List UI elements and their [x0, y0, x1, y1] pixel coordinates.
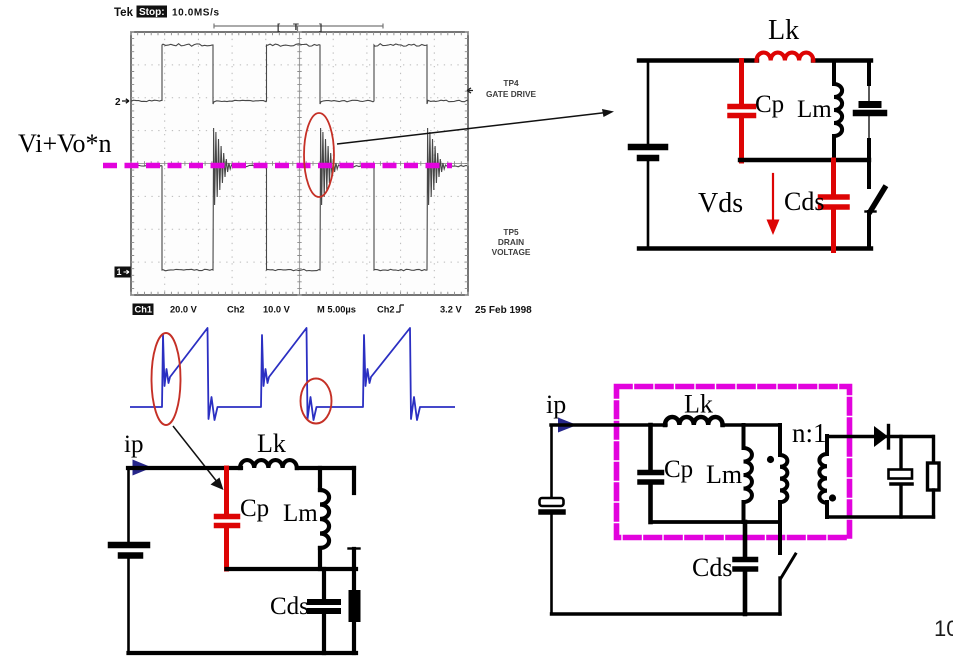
label TP5 DRAIN VOLTAGE: [492, 227, 531, 257]
wire: middle rail: [227, 567, 357, 571]
oscilloscope screenshot panel: [131, 32, 468, 295]
wire: middle rail: [740, 158, 869, 162]
arrow from scope ellipse to equivalent circuit: [337, 113, 605, 144]
capacitor Cds branch: [322, 569, 326, 599]
svg-text:3.2 V: 3.2 V: [440, 305, 463, 315]
capacitor Cp plates: [640, 470, 662, 476]
svg-text:Lm: Lm: [797, 96, 832, 123]
wire: left branch lower: [647, 161, 650, 249]
transformer primary polarity dot: [767, 456, 774, 463]
wire: left branch: [127, 468, 130, 545]
capacitor Cp branch wire lower: [739, 118, 744, 161]
svg-text:Cds: Cds: [692, 553, 732, 582]
svg-text:10: 10: [934, 616, 953, 641]
ip current direction arrowhead (blue): [558, 418, 577, 433]
svg-text:M 5.00µs: M 5.00µs: [317, 305, 356, 315]
svg-text:n:1: n:1: [792, 418, 827, 448]
svg-text:1: 1: [117, 267, 122, 277]
wire: left branch upper: [647, 61, 650, 145]
circuit 3 (full flyback with transformer): [540, 387, 940, 615]
wire: top rail: [551, 423, 780, 426]
capacitor Cds red branch: [831, 160, 836, 194]
transformer primary winding: [778, 425, 782, 553]
capacitor Cp plates: [730, 104, 754, 110]
wire: bottom rail: [129, 651, 357, 655]
magenta dashed Vi+Vo*n level line: [103, 163, 452, 169]
transformer secondary winding: [819, 454, 827, 503]
output capacitor branch: [899, 437, 902, 470]
svg-text:Cds: Cds: [784, 187, 824, 216]
svg-text:Ch2: Ch2: [227, 305, 245, 315]
svg-text:Vi+Vo*n: Vi+Vo*n: [18, 129, 112, 158]
svg-text:ip: ip: [124, 431, 143, 458]
right branch upper wire: [867, 61, 871, 85]
wire: bottom rail: [639, 246, 871, 250]
clamp capacitor plates (right branch): [862, 101, 878, 108]
svg-text:Cds: Cds: [270, 593, 309, 620]
svg-text:Ch1: Ch1: [135, 305, 153, 315]
svg-text:Tek: Tek: [114, 7, 134, 19]
inductor Lk coil: [665, 417, 723, 425]
svg-text:25 Feb 1998: 25 Feb 1998: [475, 305, 532, 316]
svg-text:Cp: Cp: [755, 91, 784, 118]
blue ip current waveform: [130, 328, 455, 420]
ip current direction arrowhead (blue): [133, 460, 153, 476]
svg-text:2: 2: [115, 97, 121, 108]
capacitor Cp branch wire lower: [648, 485, 653, 522]
svg-text:T: T: [293, 22, 299, 33]
red ellipse highlighting ringing on scope: [304, 113, 334, 197]
svg-text:20.0 V: 20.0 V: [170, 305, 198, 315]
svg-text:Vds: Vds: [698, 188, 743, 219]
switch lower contact wire: [778, 578, 781, 614]
battery source plates: [631, 144, 665, 151]
magenta dashed box (resonant tank): [617, 387, 850, 538]
wire: primary inner bottom rail: [651, 520, 781, 524]
svg-text:10.0 V: 10.0 V: [263, 305, 291, 315]
right branch upper wire (drain): [352, 468, 356, 493]
capacitor Cp branch wire upper: [648, 425, 653, 470]
svg-text:TP4: TP4: [503, 78, 519, 88]
svg-text:GATE DRIVE: GATE DRIVE: [486, 89, 537, 99]
switch blade (open): [871, 188, 885, 211]
svg-text:Cp: Cp: [664, 456, 693, 483]
svg-text:Lk: Lk: [257, 429, 286, 458]
MOSFET switch bar (filled): [349, 590, 361, 622]
circuit 2 (simplified primary loop): [111, 429, 361, 653]
scope readout row: [133, 304, 533, 317]
trigger level arrow at right edge: [467, 88, 473, 93]
battery source plates: [111, 542, 147, 549]
switch contact tick: [349, 547, 360, 549]
svg-text:TP5: TP5: [503, 227, 519, 237]
red ellipse on turn-off notch: [301, 379, 332, 424]
diode D1: [874, 426, 888, 447]
scope graticule grid: [131, 32, 468, 295]
inductor Lm vertical connections: [742, 425, 746, 522]
switch lower contact wire: [867, 212, 871, 249]
trigger window indicator line: [214, 24, 383, 32]
wire below switch: [352, 622, 356, 653]
inductor Lm coil: [320, 490, 329, 548]
drain voltage trace TP5 with turn-off ringing: [131, 128, 467, 271]
channel 1 reference marker: [115, 267, 131, 278]
svg-text:Lm: Lm: [706, 460, 742, 489]
capacitor Cp red branch wire upper: [739, 61, 744, 105]
svg-text:ip: ip: [546, 390, 566, 419]
inductor Lm vertical connections: [318, 468, 322, 569]
capacitor Cp red branch wire upper: [224, 468, 229, 513]
right branch lower wire: [352, 549, 356, 590]
transformer secondary polarity dot: [829, 494, 836, 501]
label TP4 GATE DRIVE: [486, 78, 537, 99]
svg-text:]: ]: [319, 22, 322, 33]
inductor Lm coil: [834, 84, 842, 136]
inductor Lm coil: [744, 448, 752, 502]
inductor Lk coil: [240, 460, 297, 468]
svg-text:10.0MS/s: 10.0MS/s: [172, 8, 220, 19]
arrow from ellipse to capacitor Cp of circuit 2: [173, 426, 218, 483]
scope header text Tek Stop 10.0MS/s: [114, 6, 220, 20]
svg-text:Lk: Lk: [768, 15, 799, 46]
red ellipse on first current spike: [152, 333, 181, 425]
wire: top rail: [639, 58, 871, 62]
scope graticule tick marks: [131, 32, 468, 295]
load resistor: [932, 437, 935, 464]
wire: top rail: [128, 466, 354, 470]
svg-text:Lk: Lk: [684, 390, 713, 419]
inductor Lm vertical connections: [832, 61, 836, 161]
right branch wire to switch: [867, 140, 871, 187]
svg-text:VOLTAGE: VOLTAGE: [492, 247, 531, 257]
circuit 1 (turn-off equivalent): [631, 15, 885, 251]
switch blade (open): [781, 554, 796, 578]
svg-text:Ch2: Ch2: [377, 305, 395, 315]
Vds arrow (red): [772, 174, 774, 221]
svg-text:Stop:: Stop:: [139, 7, 165, 18]
wire: bottom rail: [552, 612, 781, 615]
wire: secondary bottom rail: [827, 515, 934, 518]
inductor Lk (red coil): [757, 53, 814, 61]
capacitor Cp branch wire lower: [224, 528, 229, 569]
gate drive square-wave trace TP4: [131, 44, 468, 104]
svg-text:DRAIN: DRAIN: [498, 237, 524, 247]
svg-text:Lm: Lm: [283, 500, 318, 527]
source symbol (hollow + solid plate): [550, 425, 553, 498]
capacitor Cp plates: [217, 514, 238, 520]
svg-text:Cp: Cp: [240, 495, 269, 522]
capacitor Cds branch: [743, 522, 748, 556]
wire: secondary top rail: [827, 435, 874, 438]
